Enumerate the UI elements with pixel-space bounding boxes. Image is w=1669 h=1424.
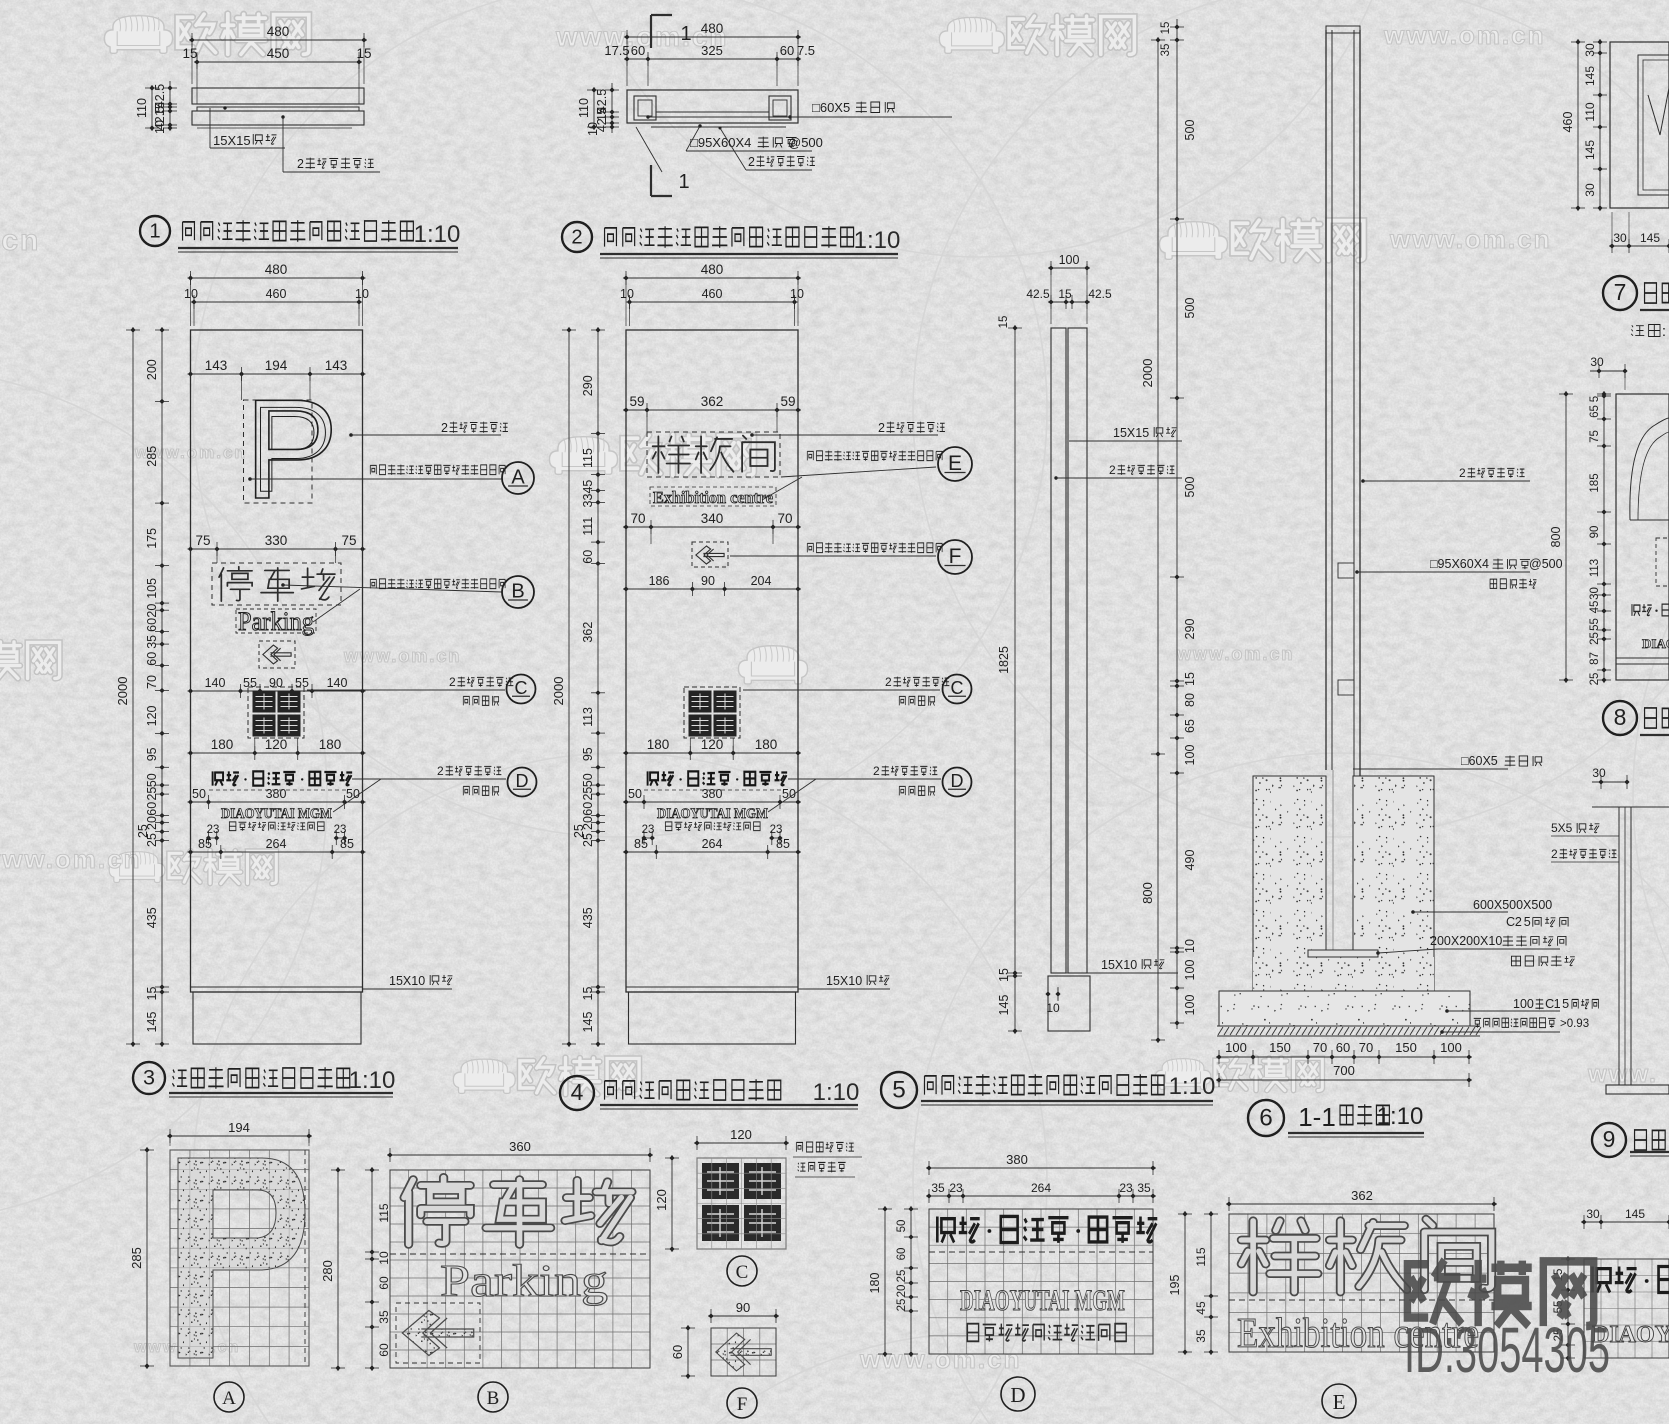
svg-text:DIAO: DIAO	[1642, 636, 1669, 651]
title 8	[1603, 701, 1669, 735]
svg-text:1: 1	[680, 23, 691, 45]
svg-text:100: 100	[1225, 1040, 1247, 1055]
svg-text:200X200X10: 200X200X10	[1430, 934, 1502, 948]
svg-text:□95X60X4: □95X60X4	[690, 135, 751, 150]
detail F grid+arrow	[711, 1328, 776, 1376]
svg-text:25: 25	[896, 1299, 908, 1312]
drawing 1 plan view plates	[192, 88, 364, 128]
drawing 2 top dims	[604, 21, 815, 86]
drawing 6 outer dims 2000 800	[1157, 37, 1159, 1043]
title 9	[1592, 1123, 1669, 1157]
drawing 3 slogan	[229, 822, 236, 831]
svg-text:50: 50	[192, 787, 206, 801]
svg-text:DIAOYUTAI MGM: DIAOYUTAI MGM	[657, 806, 768, 822]
svg-text:35: 35	[931, 1181, 945, 1195]
svg-text:20: 20	[896, 1285, 908, 1298]
svg-text:120: 120	[145, 705, 159, 726]
svg-text:35: 35	[377, 1310, 391, 1324]
svg-text:2: 2	[437, 764, 444, 778]
svg-text:140: 140	[205, 676, 226, 690]
svg-text:90: 90	[736, 1300, 750, 1315]
drawing 4 leader D2 + bubble	[768, 764, 972, 812]
drawing 4 sign text yangbanjian	[647, 432, 780, 477]
detail B bubble	[478, 1382, 508, 1412]
svg-text:200: 200	[145, 359, 159, 380]
detail D grid	[929, 1209, 1153, 1354]
svg-text:110: 110	[1583, 102, 1597, 121]
svg-text:A: A	[511, 467, 525, 489]
svg-text:100: 100	[1183, 745, 1197, 766]
svg-text:290: 290	[581, 375, 595, 396]
detail A letter P speckled	[170, 1150, 309, 1366]
svg-text:600X500X500: 600X500X500	[1473, 898, 1552, 912]
drawing 3 dim 75 330 75	[188, 548, 366, 550]
drawing 4 leader C2 + bubble	[743, 675, 972, 706]
svg-text:DIAOYUTAI MGM: DIAOYUTAI MGM	[221, 806, 332, 822]
svg-text:www.om.cn: www.om.cn	[1389, 224, 1552, 254]
drawing 9 dim 30	[1592, 766, 1630, 789]
svg-text:65: 65	[1183, 719, 1197, 733]
svg-text:1:10: 1:10	[813, 1079, 860, 1106]
svg-text:2: 2	[297, 157, 304, 171]
detail E dims	[1168, 1188, 1497, 1355]
svg-text:70: 70	[1313, 1040, 1327, 1055]
svg-text:45: 45	[581, 480, 595, 494]
title 2	[562, 222, 900, 258]
svg-text:5: 5	[1524, 915, 1531, 929]
svg-text:15: 15	[1183, 672, 1197, 686]
svg-text:>0.93: >0.93	[1560, 1018, 1589, 1030]
drawing 4 dim 59 362 59	[623, 409, 801, 411]
svg-text:380: 380	[702, 787, 723, 801]
svg-text:60: 60	[145, 802, 159, 816]
svg-text:30: 30	[1583, 43, 1597, 57]
detail D rows	[929, 1216, 1157, 1341]
drawing 4 dim 186 90 204	[623, 588, 801, 590]
svg-text:85: 85	[634, 837, 648, 851]
svg-text:115: 115	[581, 448, 595, 468]
svg-text:113: 113	[1589, 559, 1601, 577]
drawing 3 logo	[248, 687, 304, 738]
svg-text:3: 3	[143, 1065, 155, 1090]
svg-text:15: 15	[356, 46, 371, 61]
svg-text:1:10: 1:10	[1377, 1103, 1424, 1130]
svg-text:B: B	[511, 581, 524, 603]
svg-text:90: 90	[269, 676, 283, 690]
svg-text:150: 150	[1395, 1040, 1417, 1055]
svg-text:23: 23	[770, 824, 783, 836]
drawing 9 leaders	[1551, 821, 1619, 862]
svg-text:800: 800	[1140, 882, 1155, 904]
svg-text:DIAOYUTAI MGM: DIAOYUTAI MGM	[960, 1284, 1125, 1317]
drawing 5 dim 10	[1045, 987, 1060, 1015]
svg-text:□60X5: □60X5	[1461, 754, 1498, 768]
detail C grid+logo	[697, 1158, 786, 1249]
svg-text:23: 23	[642, 824, 655, 836]
drawing 3 brand row	[209, 771, 352, 790]
svg-text:C: C	[736, 1262, 749, 1283]
svg-text:2: 2	[571, 226, 582, 248]
svg-text:95: 95	[145, 747, 159, 761]
svg-text::: :	[1662, 323, 1666, 340]
svg-text:15X15: 15X15	[213, 133, 251, 148]
svg-text:460: 460	[1561, 112, 1575, 133]
svg-text:500: 500	[1183, 120, 1197, 141]
svg-text:50: 50	[145, 773, 159, 787]
svg-text:60: 60	[1336, 1040, 1350, 1055]
svg-text:23: 23	[949, 1181, 963, 1195]
svg-text:70: 70	[145, 675, 159, 689]
drawing 4 logo	[684, 687, 740, 738]
drawing 4 arrow	[692, 542, 728, 567]
svg-text:25: 25	[581, 787, 595, 801]
svg-text:90: 90	[701, 574, 715, 588]
detail D bubble	[1001, 1377, 1035, 1411]
drawing 3 dim 143 194 143	[188, 373, 366, 375]
drawing 4 dim 70 340 70	[623, 526, 801, 528]
svg-text:460: 460	[702, 287, 723, 301]
svg-text:204: 204	[751, 574, 772, 588]
svg-text:30: 30	[1586, 1207, 1600, 1221]
svg-text:285: 285	[145, 446, 159, 467]
svg-text:1:10: 1:10	[414, 221, 461, 248]
svg-text:15: 15	[998, 316, 1010, 329]
drawing 3 pillar outline	[191, 330, 363, 1044]
svg-text:D: D	[516, 771, 529, 791]
drawing 7 bottom dims	[1609, 212, 1669, 253]
svg-text:1825: 1825	[997, 646, 1011, 674]
svg-text:60: 60	[145, 652, 159, 666]
svg-text:2: 2	[873, 764, 880, 778]
svg-text:500: 500	[1183, 477, 1197, 498]
drawing 4 leader steel	[750, 421, 945, 437]
svg-text:30: 30	[1613, 231, 1627, 245]
svg-text:60: 60	[377, 1343, 391, 1357]
svg-text:55: 55	[243, 676, 257, 690]
svg-text:264: 264	[702, 837, 723, 851]
svg-text:7.5: 7.5	[797, 43, 815, 58]
drawing 8 left dims	[1603, 391, 1605, 683]
svg-text:C: C	[1506, 915, 1515, 929]
svg-text:2: 2	[449, 675, 456, 689]
svg-text:90: 90	[1589, 526, 1601, 539]
svg-text:C: C	[951, 678, 964, 698]
svg-text:Parking: Parking	[238, 607, 314, 636]
svg-text:□95X60X4: □95X60X4	[1430, 557, 1489, 571]
title 1	[140, 216, 460, 252]
drawing 1 top dims	[182, 24, 371, 104]
svg-text:2000: 2000	[115, 677, 130, 706]
svg-text:100: 100	[1440, 1040, 1462, 1055]
detail A grid	[170, 1150, 309, 1366]
svg-text:15: 15	[182, 46, 197, 61]
svg-text:15: 15	[1058, 287, 1072, 301]
svg-text:10: 10	[377, 1251, 391, 1265]
detail E rows	[1229, 1219, 1494, 1357]
svg-text:2: 2	[1515, 915, 1522, 929]
drawing 2 leader steel	[636, 127, 815, 173]
svg-text:7: 7	[1614, 279, 1627, 305]
svg-text:460: 460	[266, 287, 287, 301]
svg-text:480: 480	[267, 24, 290, 39]
svg-text:35: 35	[1137, 1181, 1151, 1195]
svg-text:185: 185	[1589, 473, 1601, 492]
drawing 6 foundation blocks	[1253, 776, 1434, 991]
svg-text:59: 59	[629, 394, 644, 409]
svg-text:www.om.cn: www.om.cn	[0, 844, 142, 874]
drawing 6 upper leaders	[1355, 466, 1562, 589]
svg-text:www.om.cn: www.om.cn	[1383, 20, 1546, 50]
svg-text:60: 60	[581, 550, 595, 564]
detail D dims	[868, 1152, 1156, 1357]
svg-text:33: 33	[581, 494, 595, 508]
svg-text:55: 55	[295, 676, 309, 690]
drawing 7 bin plan	[1610, 42, 1669, 208]
svg-text:264: 264	[1031, 1181, 1051, 1195]
svg-text:23: 23	[334, 824, 347, 836]
svg-text:10: 10	[790, 287, 804, 301]
svg-text:59: 59	[780, 394, 795, 409]
svg-text:15X10: 15X10	[389, 974, 425, 988]
svg-text:800: 800	[1549, 527, 1563, 548]
svg-text:17.5: 17.5	[604, 43, 629, 58]
svg-text:362: 362	[1351, 1188, 1373, 1203]
drawing 4 leader acrylic + bubble E	[762, 447, 972, 500]
drawing 3 dim 50 380 50	[188, 801, 366, 803]
svg-text:E: E	[948, 452, 962, 475]
svg-text:60: 60	[145, 618, 159, 632]
drawing 2 section flags	[651, 15, 692, 196]
svg-text:100: 100	[1059, 253, 1080, 267]
svg-text:2: 2	[748, 155, 755, 169]
svg-text:www.: www.	[1587, 1061, 1658, 1088]
svg-text:www.om.cn: www.om.cn	[343, 646, 461, 666]
svg-text:2: 2	[878, 421, 885, 435]
svg-text:1: 1	[1554, 997, 1561, 1011]
svg-text:10: 10	[1046, 1001, 1060, 1015]
svg-text:30: 30	[1592, 766, 1606, 780]
drawing 6 bottom dims	[1216, 1040, 1472, 1087]
svg-text:25: 25	[896, 1270, 908, 1283]
svg-text:145: 145	[1583, 140, 1597, 160]
svg-text:145: 145	[1583, 66, 1597, 86]
svg-text:om.cn: om.cn	[0, 224, 40, 257]
svg-text:www.om.cn: www.om.cn	[859, 1344, 1022, 1374]
detail A bubble	[214, 1382, 244, 1412]
svg-text:50: 50	[896, 1220, 908, 1233]
drawing 1 left dims	[135, 81, 177, 134]
svg-text:15X10: 15X10	[1101, 958, 1137, 972]
big site watermark logo	[1404, 1260, 1610, 1386]
svg-text:1-1: 1-1	[1298, 1102, 1336, 1132]
svg-text:362: 362	[581, 622, 595, 643]
svg-text:60: 60	[631, 43, 645, 58]
svg-text:120: 120	[730, 1127, 752, 1142]
svg-text:264: 264	[266, 837, 287, 851]
svg-text:435: 435	[145, 907, 159, 928]
drawing 3 top dims	[184, 262, 369, 326]
drawing 1 leader steel label	[281, 115, 380, 172]
drawing 5 leader 15x10 groove	[1076, 958, 1178, 973]
svg-text:35: 35	[145, 635, 159, 649]
svg-text:65: 65	[1589, 405, 1601, 418]
svg-text:100: 100	[1183, 960, 1197, 981]
drawing 4 left dim chain	[597, 327, 599, 1047]
detail C labels	[793, 1142, 862, 1177]
svg-text:60: 60	[896, 1248, 908, 1261]
title 6	[1248, 1100, 1424, 1137]
detail B sign chars	[390, 1177, 650, 1363]
svg-text:145: 145	[1640, 231, 1660, 245]
svg-text:60: 60	[780, 43, 794, 58]
drawing 3 arrow	[259, 641, 295, 668]
drawing 9 bin side	[1592, 807, 1669, 1094]
svg-text:55: 55	[1589, 618, 1601, 631]
svg-text:10: 10	[1183, 939, 1197, 953]
svg-text:80: 80	[1183, 693, 1197, 707]
svg-text:1:10: 1:10	[1169, 1073, 1216, 1100]
drawing 3 sign text parking	[212, 563, 341, 605]
detail A dims	[129, 1120, 312, 1369]
drawing 2 leader column	[646, 100, 952, 119]
svg-text:1: 1	[149, 220, 160, 242]
drawing 3 leader B + bubble	[281, 576, 534, 622]
drawing 4 outer 2000 dim	[568, 327, 570, 1047]
svg-text:25: 25	[581, 833, 595, 847]
svg-text:700: 700	[1333, 1063, 1355, 1078]
svg-text:380: 380	[1006, 1152, 1028, 1167]
svg-text:195: 195	[1168, 1275, 1182, 1296]
svg-text:180: 180	[755, 737, 778, 752]
drawing 4 dim 50 380 50	[623, 801, 801, 803]
svg-text:15: 15	[145, 987, 159, 1001]
svg-text:42.5: 42.5	[1088, 287, 1112, 301]
svg-text:120: 120	[654, 1189, 669, 1211]
svg-text:490: 490	[1183, 850, 1197, 871]
drawing 4 dim 23 pair	[641, 824, 782, 845]
svg-text:175: 175	[145, 528, 159, 549]
svg-text:10: 10	[184, 287, 198, 301]
svg-text:325: 325	[701, 43, 723, 58]
detail E bubble	[1322, 1384, 1356, 1418]
svg-text:480: 480	[701, 21, 724, 36]
svg-text:P: P	[251, 381, 332, 517]
drawing 4 brand row	[644, 771, 787, 790]
drawing 7 left dims	[1599, 39, 1601, 211]
svg-text:435: 435	[581, 907, 595, 928]
svg-text:280: 280	[320, 1260, 335, 1282]
svg-text:330: 330	[265, 533, 288, 548]
svg-text:25: 25	[145, 833, 159, 847]
svg-text:50: 50	[628, 787, 642, 801]
svg-text:85: 85	[776, 837, 790, 851]
drawing 5 leader 15x15 groove	[1069, 426, 1182, 441]
svg-text:10: 10	[586, 122, 600, 136]
svg-text:450: 450	[267, 46, 290, 61]
svg-text:Exhibition centre: Exhibition centre	[653, 488, 773, 507]
detail B grid	[390, 1170, 650, 1368]
svg-text:120: 120	[701, 737, 724, 752]
svg-text:25: 25	[1589, 632, 1601, 645]
drawing 6 post	[1326, 26, 1360, 952]
svg-text:E: E	[1333, 1390, 1346, 1414]
svg-text:480: 480	[701, 262, 724, 277]
drawing 3 groove leader	[363, 974, 453, 989]
svg-text:113: 113	[581, 707, 595, 727]
detail E grid	[1229, 1214, 1494, 1352]
drawing 5 side bars	[1048, 328, 1090, 1031]
svg-text:115: 115	[1194, 1247, 1208, 1266]
svg-text:10: 10	[620, 287, 634, 301]
drawing 3 leader A acrylic + bubble A	[248, 462, 534, 494]
drawing 4 pillar outline	[626, 330, 798, 1044]
svg-text:B: B	[487, 1388, 500, 1409]
svg-text:42.5: 42.5	[1026, 287, 1050, 301]
title 7	[1603, 276, 1669, 340]
drawing 3 leader A steel	[349, 421, 508, 437]
drawing 4 leader F + bubble	[730, 540, 972, 574]
drawing 6 ground hatch	[1217, 1026, 1481, 1036]
drawing 6 right dim chain	[1176, 19, 1178, 1029]
drawing 3 dim 23 pair	[206, 824, 347, 845]
svg-text:186: 186	[649, 574, 670, 588]
svg-text:360: 360	[509, 1139, 531, 1154]
svg-text:75: 75	[195, 533, 210, 548]
svg-text:15X15: 15X15	[1113, 426, 1149, 440]
detail F dims	[670, 1300, 779, 1379]
watermark logos	[104, 16, 172, 54]
svg-text:15X10: 15X10	[826, 974, 862, 988]
svg-text:10: 10	[355, 287, 369, 301]
svg-text:A: A	[222, 1388, 236, 1409]
drawing 4 dim 180 120 180	[623, 752, 801, 754]
svg-text:Parking: Parking	[440, 1255, 608, 1306]
svg-text:340: 340	[701, 511, 724, 526]
svg-text:111: 111	[581, 517, 595, 536]
svg-text:5: 5	[1589, 396, 1601, 402]
svg-text:2: 2	[1551, 847, 1558, 861]
svg-text:60: 60	[581, 802, 595, 816]
svg-text:2000: 2000	[1140, 359, 1155, 388]
svg-text:120: 120	[265, 737, 288, 752]
detail C dims	[654, 1127, 789, 1252]
drawing 3 dim 140 55 90 55 140	[188, 690, 366, 692]
svg-text:85: 85	[198, 837, 212, 851]
drawing 3 letter P	[244, 370, 339, 529]
drawing 5 leader steel	[1054, 463, 1182, 480]
watermark sofa mid	[738, 646, 807, 684]
svg-text:145: 145	[1625, 1207, 1645, 1221]
drawing 6 baseplate	[1308, 950, 1378, 957]
svg-text:380: 380	[266, 787, 287, 801]
svg-text:4: 4	[571, 1079, 584, 1105]
drawing 4 top dims	[620, 262, 804, 326]
drawing 3 leader C + bubble	[307, 675, 536, 706]
detail B dims	[320, 1139, 653, 1371]
svg-text:105: 105	[145, 578, 159, 599]
svg-text:ID:3054305: ID:3054305	[1404, 1314, 1610, 1386]
svg-text:480: 480	[265, 262, 288, 277]
svg-text:D: D	[951, 771, 964, 791]
svg-text:2: 2	[885, 675, 892, 689]
drawing 8 bin elevation	[1616, 394, 1669, 680]
svg-text:70: 70	[1359, 1040, 1373, 1055]
drawing 2 plan body	[627, 90, 798, 127]
svg-text:1:10: 1:10	[854, 227, 901, 254]
svg-text:23: 23	[207, 824, 220, 836]
svg-text:5: 5	[892, 1077, 906, 1104]
svg-text:87: 87	[1589, 652, 1601, 665]
